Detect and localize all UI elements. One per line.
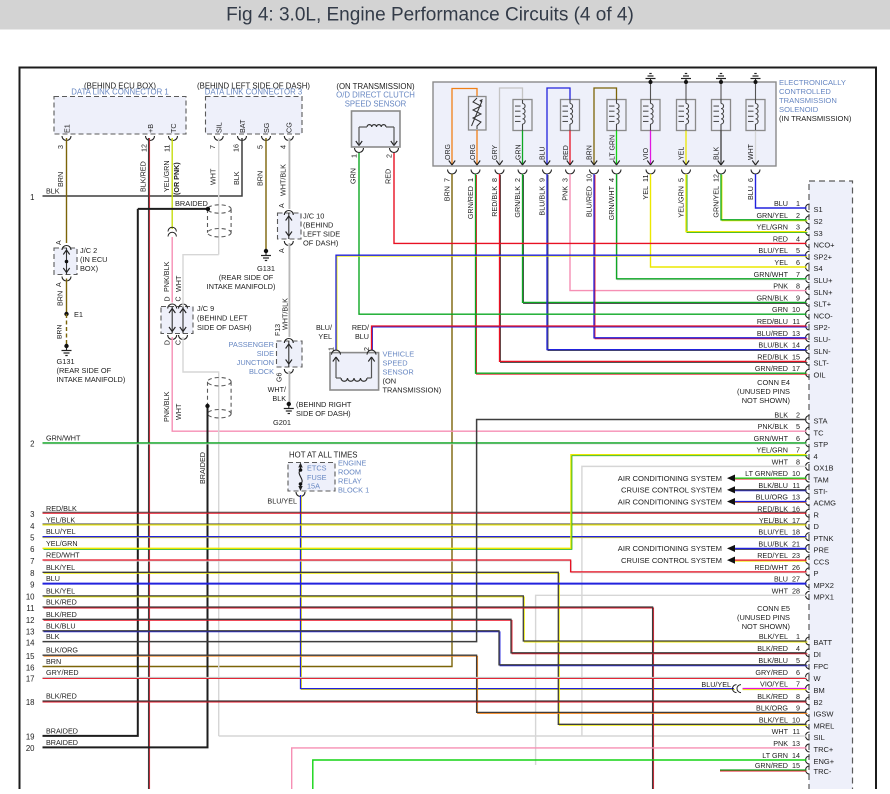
wire WHT OX1B drop xyxy=(582,466,807,736)
connector box DATA LINK CONNECTOR 1 xyxy=(54,97,186,135)
wire GRN O/D pin1 to NCO- xyxy=(349,153,807,314)
wire 13 BLK/BLU to FPC xyxy=(26,621,808,666)
svg-text:(UNUSED PINS: (UNUSED PINS xyxy=(737,387,790,396)
svg-text:(ON: (ON xyxy=(383,377,397,386)
ECM E4 pin S2 xyxy=(756,211,822,226)
label J/C 2 xyxy=(80,246,108,273)
svg-text:TRANSMISSION): TRANSMISSION) xyxy=(383,386,442,395)
ECM E5 pin BM lower xyxy=(760,680,825,695)
svg-text:NOT SHOWN): NOT SHOWN) xyxy=(742,622,790,631)
svg-text:SP2-: SP2- xyxy=(814,323,831,332)
fuse bottom pin xyxy=(296,492,305,497)
svg-text:CONN E4: CONN E4 xyxy=(757,378,790,387)
svg-text:BLK: BLK xyxy=(232,171,241,185)
svg-text:BLK/RED: BLK/RED xyxy=(46,692,77,701)
wire RED O/D pin2 to NCO+ xyxy=(384,153,807,243)
electronically controlled transmission solenoid box xyxy=(433,82,776,166)
svg-text:G201: G201 xyxy=(273,418,291,427)
svg-text:BLK/YEL: BLK/YEL xyxy=(759,715,788,724)
svg-text:10: 10 xyxy=(585,174,594,182)
shield cylinder B xyxy=(208,378,232,418)
svg-text:OIL: OIL xyxy=(814,370,826,379)
wire YEL/GRN DLC1 TC xyxy=(162,138,181,229)
svg-text:RED: RED xyxy=(773,234,788,243)
solenoid SLU coil xyxy=(641,82,660,165)
DLC3 pin BAT xyxy=(232,119,248,152)
svg-text:(BEHIND LEFT: (BEHIND LEFT xyxy=(197,314,248,323)
svg-text:STP: STP xyxy=(814,440,829,449)
svg-text:WHT: WHT xyxy=(174,275,183,292)
wire 12 BLK/RED to DI xyxy=(26,610,808,654)
ECM E5 pin P xyxy=(754,563,818,578)
wire BLK/BLU to STI- + cruise control system xyxy=(621,486,806,495)
ECM E4 pin SP2- xyxy=(757,317,831,332)
solenoid S2 coil xyxy=(492,88,532,165)
wire 8 BLK/YEL to MREL xyxy=(30,563,807,726)
svg-text:RELAY: RELAY xyxy=(338,477,362,486)
svg-text:3: 3 xyxy=(561,178,570,182)
ECM E5 pin 4 xyxy=(756,446,817,461)
label O/D DIRECT CLUTCH SPEED SENSOR xyxy=(336,91,415,109)
svg-text:(REAR SIDE OF: (REAR SIDE OF xyxy=(57,366,112,375)
label J/C 9 xyxy=(197,304,252,332)
wire braided 19 xyxy=(26,209,138,742)
svg-text:9: 9 xyxy=(30,580,34,589)
ECM E4 pin NCO- xyxy=(772,305,833,320)
ground G131 (SG) xyxy=(261,249,271,261)
svg-text:B2: B2 xyxy=(814,698,823,707)
svg-text:OF DASH): OF DASH) xyxy=(303,239,338,248)
svg-text:SIDE: SIDE xyxy=(257,349,274,358)
svg-text:12: 12 xyxy=(712,174,721,182)
svg-text:RED/BLK: RED/BLK xyxy=(46,504,77,513)
solenoid SLN coil xyxy=(677,82,696,165)
DLC3 pin SIL xyxy=(208,122,224,149)
svg-text:C: C xyxy=(176,296,183,301)
svg-text:YEL/GRN: YEL/GRN xyxy=(756,223,788,232)
svg-text:E1: E1 xyxy=(74,310,83,319)
svg-text:2: 2 xyxy=(796,211,800,220)
junction J/C 10 xyxy=(278,203,302,253)
svg-text:GRN: GRN xyxy=(772,305,788,314)
wire 16 BRN label xyxy=(26,657,61,672)
svg-text:18: 18 xyxy=(792,528,800,537)
svg-text:(BEHIND RIGHT: (BEHIND RIGHT xyxy=(296,400,352,409)
svg-text:RED/WHT: RED/WHT xyxy=(754,563,788,572)
wire 3 RED/BLK to R xyxy=(30,504,806,519)
svg-text:(BEHIND: (BEHIND xyxy=(303,221,333,230)
svg-text:C: C xyxy=(176,340,183,345)
svg-text:D: D xyxy=(165,296,172,301)
svg-text:BRN: BRN xyxy=(56,172,65,187)
svg-text:BLK/RED: BLK/RED xyxy=(757,692,788,701)
svg-text:BLU/BLK: BLU/BLK xyxy=(538,186,547,216)
svg-text:D: D xyxy=(814,522,820,531)
svg-text:A: A xyxy=(279,203,286,208)
ECM E4 pin NCO+ xyxy=(773,234,835,249)
svg-text:J/C 9: J/C 9 xyxy=(197,304,214,313)
ECM E5 pin DI lower xyxy=(757,644,821,659)
wire 14 BLK to STA xyxy=(26,420,807,648)
solenoid box pin 8 xyxy=(490,170,504,217)
svg-text:BRN: BRN xyxy=(443,186,452,201)
ECM E5 pin TC xyxy=(758,422,824,437)
svg-text:YEL: YEL xyxy=(679,147,686,160)
svg-text:BLK/RED: BLK/RED xyxy=(46,598,77,607)
svg-text:DATA LINK CONNECTOR 1: DATA LINK CONNECTOR 1 xyxy=(71,88,168,97)
svg-text:11: 11 xyxy=(163,145,172,152)
wire PNK/BLK to J/C9 xyxy=(162,237,172,303)
wire PNK pin3 to SLN+ xyxy=(570,174,807,291)
svg-text:LT GRN/RED: LT GRN/RED xyxy=(745,469,788,478)
svg-text:J/C 10: J/C 10 xyxy=(303,212,324,221)
ECM E4 pin SLU- xyxy=(757,329,831,344)
svg-text:7: 7 xyxy=(443,178,452,182)
svg-text:2: 2 xyxy=(513,178,522,182)
solenoid box pin 11 xyxy=(641,170,655,200)
svg-text:3: 3 xyxy=(796,223,800,232)
label BLU/YEL (VSS) xyxy=(316,323,332,341)
ECM E5 pin TRC+ lower xyxy=(773,739,834,754)
svg-text:8: 8 xyxy=(490,178,499,182)
svg-text:6: 6 xyxy=(746,178,755,182)
inline connector on TC wire xyxy=(168,227,176,236)
svg-text:YEL: YEL xyxy=(318,332,332,341)
svg-text:A: A xyxy=(56,240,63,245)
svg-text:BLK/YEL: BLK/YEL xyxy=(46,563,75,572)
ground solenoid NCO xyxy=(751,74,761,85)
svg-text:10: 10 xyxy=(792,715,800,724)
label HOT AT ALL TIMES xyxy=(289,451,357,460)
svg-text:RED: RED xyxy=(384,169,393,184)
wire LT GRN/RED to TAM + air conditioning system xyxy=(618,474,807,483)
svg-text:BLK/RED: BLK/RED xyxy=(757,644,788,653)
svg-text:BLK/BLU: BLK/BLU xyxy=(758,481,788,490)
svg-text:+B: +B xyxy=(146,124,155,133)
wire 10 BLK/YEL to BATT xyxy=(26,586,808,642)
wire 15 BLK/ORG to IGSW xyxy=(26,646,808,714)
svg-text:BLU/ORG: BLU/ORG xyxy=(756,493,789,502)
svg-text:FUSE: FUSE xyxy=(307,473,327,482)
svg-text:BATT: BATT xyxy=(814,638,833,647)
svg-text:BLU/YEL: BLU/YEL xyxy=(701,680,731,689)
wire BRN DLC3 SG to ground xyxy=(256,138,267,250)
wire braided 20 xyxy=(26,404,210,753)
svg-text:19: 19 xyxy=(26,733,35,742)
label ORG 2 xyxy=(470,144,477,160)
wire BRN J/C2 to E1 node xyxy=(56,279,67,314)
ground solenoid SLU xyxy=(646,74,656,85)
ground solenoid SLN xyxy=(681,74,691,85)
svg-text:P: P xyxy=(814,569,819,578)
svg-text:RED/BLU: RED/BLU xyxy=(757,317,788,326)
O/D sensor pin 1 xyxy=(350,141,364,158)
svg-text:BLK: BLK xyxy=(714,146,721,160)
VSS pin 2 xyxy=(362,347,376,362)
svg-text:4: 4 xyxy=(814,452,818,461)
svg-text:MREL: MREL xyxy=(814,722,835,731)
svg-text:BLU: BLU xyxy=(774,199,788,208)
ECM E4 pin S4 xyxy=(774,258,822,273)
svg-text:BRAIDED: BRAIDED xyxy=(175,199,208,208)
svg-text:7: 7 xyxy=(796,446,800,455)
wire BLU pin6 to S1 xyxy=(756,174,807,208)
ECM E5 pin MPX2 xyxy=(774,575,834,590)
ground G201 xyxy=(284,402,294,414)
svg-text:IGSW: IGSW xyxy=(814,710,835,719)
svg-text:10: 10 xyxy=(792,469,800,478)
svg-text:YEL/GRN: YEL/GRN xyxy=(756,446,788,455)
svg-text:E1: E1 xyxy=(63,124,72,133)
svg-text:MPX1: MPX1 xyxy=(814,593,834,602)
svg-text:ORG: ORG xyxy=(445,144,452,160)
svg-text:SLU+: SLU+ xyxy=(814,276,834,285)
svg-text:YEL/GRN: YEL/GRN xyxy=(46,539,78,548)
wire GRN/RED pin1 to OIL xyxy=(476,174,808,374)
wire WHT/BLK PSJB to G201 xyxy=(289,371,290,403)
svg-text:13: 13 xyxy=(792,739,800,748)
svg-text:S3: S3 xyxy=(814,229,823,238)
svg-text:J/C 2: J/C 2 xyxy=(80,246,97,255)
svg-text:8: 8 xyxy=(796,282,800,291)
svg-text:OX1B: OX1B xyxy=(814,464,834,473)
wire YEL/GRN pin5 to S3 xyxy=(686,174,808,233)
svg-text:RED/BLK: RED/BLK xyxy=(757,352,788,361)
label G131 rear side of intake manifold (E1) xyxy=(57,357,126,384)
svg-text:4: 4 xyxy=(279,145,288,149)
svg-text:YEL/BLK: YEL/BLK xyxy=(46,515,75,524)
ECM E5 pin SIL lower xyxy=(772,727,825,742)
svg-text:13: 13 xyxy=(792,329,800,338)
svg-text:16: 16 xyxy=(26,663,35,672)
svg-text:BLU/RED: BLU/RED xyxy=(585,186,594,217)
svg-text:4: 4 xyxy=(796,234,800,243)
svg-text:GRN/WHT: GRN/WHT xyxy=(754,270,789,279)
label (ON TRANSMISSION) xyxy=(336,82,415,91)
svg-text:2: 2 xyxy=(385,154,394,158)
svg-text:BAT: BAT xyxy=(238,119,247,133)
svg-text:LT GRN: LT GRN xyxy=(610,135,617,160)
svg-text:3: 3 xyxy=(56,145,65,149)
svg-text:18: 18 xyxy=(26,698,35,707)
svg-text:RED/BLK: RED/BLK xyxy=(490,186,499,217)
svg-text:BLK/BLU: BLK/BLU xyxy=(758,656,788,665)
ECM E5 pin STA xyxy=(774,411,827,426)
svg-text:GRN: GRN xyxy=(516,144,523,160)
svg-text:SPEED: SPEED xyxy=(383,359,408,368)
svg-text:27: 27 xyxy=(792,575,800,584)
ECM E5 pin MREL lower xyxy=(759,715,835,730)
svg-text:(UNUSED PINS: (UNUSED PINS xyxy=(737,613,790,622)
svg-text:1: 1 xyxy=(350,154,359,158)
O/D sensor coil xyxy=(359,125,394,144)
svg-text:BLU/YEL: BLU/YEL xyxy=(46,527,76,536)
label BRAIDED (top) xyxy=(175,199,208,208)
svg-text:CONN E5: CONN E5 xyxy=(757,604,790,613)
svg-text:5: 5 xyxy=(796,422,800,431)
svg-text:CRUISE CONTROL SYSTEM: CRUISE CONTROL SYSTEM xyxy=(621,556,722,565)
svg-text:10: 10 xyxy=(26,593,35,602)
wire 4 YEL/BLK to D xyxy=(30,515,806,530)
label CONN E4 xyxy=(737,378,790,405)
svg-text:PTNK: PTNK xyxy=(814,534,834,543)
svg-text:SPEED SENSOR: SPEED SENSOR xyxy=(345,100,407,109)
svg-text:28: 28 xyxy=(792,586,800,595)
svg-text:PNK: PNK xyxy=(773,739,788,748)
solenoid box pin 10 xyxy=(585,170,599,218)
svg-text:Fig 4: 3.0L, Engine Performanc: Fig 4: 3.0L, Engine Performance Circuits… xyxy=(226,5,634,26)
label CONN E5 xyxy=(737,604,790,631)
svg-text:PASSENGER: PASSENGER xyxy=(229,340,274,349)
svg-text:2: 2 xyxy=(796,411,800,420)
label RED/BLU (VSS) xyxy=(352,323,369,341)
wire WHT MPX1 drop xyxy=(536,595,807,765)
ECM E5 pin TAM xyxy=(745,469,829,484)
svg-text:BLK/ORG: BLK/ORG xyxy=(756,703,788,712)
ECM E5 pin PTNK xyxy=(758,528,833,543)
svg-text:TRC-: TRC- xyxy=(814,767,832,776)
shield cylinder A xyxy=(208,205,232,237)
ECM E4 pin S3 xyxy=(756,223,822,238)
svg-text:BRAIDED: BRAIDED xyxy=(46,726,78,735)
svg-text:11: 11 xyxy=(26,604,34,613)
svg-text:WHT/BLK: WHT/BLK xyxy=(279,164,288,196)
svg-text:TC: TC xyxy=(814,428,825,437)
svg-text:9: 9 xyxy=(796,293,800,302)
wire braided shield horizontal xyxy=(138,207,210,211)
svg-text:21: 21 xyxy=(792,539,800,548)
wire WHT/BLK DLC3 CG to J/C10 xyxy=(279,138,290,209)
solenoid S4 coil xyxy=(587,88,627,165)
label WHT/BLK (G201) xyxy=(268,385,287,403)
svg-text:NCO+: NCO+ xyxy=(814,241,836,250)
label DATA LINK CONNECTOR 1 xyxy=(71,88,168,97)
svg-text:WHT: WHT xyxy=(174,403,183,420)
svg-text:BLU/RED: BLU/RED xyxy=(757,329,788,338)
svg-text:BLK: BLK xyxy=(774,411,788,420)
svg-text:ENG+: ENG+ xyxy=(814,757,835,766)
fuse ETCS 15A xyxy=(288,463,335,492)
label DATA LINK CONNECTOR 3 xyxy=(205,88,302,97)
ECM E4 pin SLT- xyxy=(757,352,829,367)
svg-text:1: 1 xyxy=(466,178,475,182)
svg-text:SIL: SIL xyxy=(215,122,224,133)
svg-text:ENGINE: ENGINE xyxy=(338,459,366,468)
svg-text:GRN/RED: GRN/RED xyxy=(755,761,788,770)
svg-text:PNK/BLK: PNK/BLK xyxy=(162,261,171,292)
label ELECTRONICALLY CONTROLLED TRANSMISSION SOLENOID xyxy=(779,78,852,123)
svg-text:(OR PNK): (OR PNK) xyxy=(172,162,181,195)
svg-text:DATA LINK CONNECTOR 3: DATA LINK CONNECTOR 3 xyxy=(205,88,302,97)
svg-text:BRN: BRN xyxy=(46,657,61,666)
wire 2 GRN/WHT to STP xyxy=(30,433,806,448)
svg-text:3: 3 xyxy=(30,510,34,519)
solenoid box pin 12 xyxy=(712,170,726,218)
svg-text:SIL: SIL xyxy=(814,733,825,742)
wire WHT DLC3 SIL shielded segment xyxy=(209,138,219,255)
label (BEHIND ECU BOX) xyxy=(84,82,156,91)
svg-text:BLK/ORG: BLK/ORG xyxy=(46,646,78,655)
svg-text:BLU/YEL: BLU/YEL xyxy=(267,497,297,506)
svg-text:VIO/YEL: VIO/YEL xyxy=(760,680,788,689)
wire BLU/ORG to ACMG + air conditioning system xyxy=(618,497,807,506)
svg-text:GRN/RED: GRN/RED xyxy=(466,186,475,219)
ECM E5 pin W lower xyxy=(755,668,821,683)
svg-text:BRN: BRN xyxy=(256,171,265,186)
wire BRN DLC1 E1 to J/C2 xyxy=(56,138,67,243)
svg-text:15: 15 xyxy=(792,761,800,770)
svg-text:S2: S2 xyxy=(814,217,823,226)
DLC1 pin TC xyxy=(163,123,179,152)
svg-text:BRN: BRN xyxy=(57,325,64,339)
label ORG 1 xyxy=(445,144,452,160)
wire 11 BLK/RED down xyxy=(26,598,653,791)
svg-text:1: 1 xyxy=(796,199,800,208)
svg-text:16: 16 xyxy=(232,144,241,152)
solenoid box pin 4 xyxy=(607,170,621,221)
svg-text:NOT SHOWN): NOT SHOWN) xyxy=(742,396,790,405)
svg-text:WHT: WHT xyxy=(748,143,755,160)
VSS pin 1 xyxy=(327,347,341,362)
svg-text:ROOM: ROOM xyxy=(338,468,361,477)
svg-text:RED/YEL: RED/YEL xyxy=(757,551,788,560)
svg-text:BRAIDED: BRAIDED xyxy=(198,452,207,484)
svg-text:8: 8 xyxy=(30,569,34,578)
wire LT GRN to ENG+ xyxy=(313,760,807,789)
svg-text:6: 6 xyxy=(796,258,800,267)
svg-text:BLK/YEL: BLK/YEL xyxy=(46,586,75,595)
svg-text:GRN/WHT: GRN/WHT xyxy=(46,433,81,442)
ECM E5 pin CCS xyxy=(757,551,829,566)
wire WHT to SIL pin xyxy=(219,735,807,737)
svg-text:8: 8 xyxy=(796,457,800,466)
svg-text:BRN: BRN xyxy=(56,291,65,306)
svg-text:7: 7 xyxy=(796,680,800,689)
svg-text:11: 11 xyxy=(793,481,800,490)
svg-text:SLT-: SLT- xyxy=(814,359,830,368)
svg-text:SLT+: SLT+ xyxy=(814,300,832,309)
ECM E4 pin SLN- xyxy=(758,341,831,356)
svg-text:TRANSMISSION: TRANSMISSION xyxy=(779,96,837,105)
svg-text:YEL/GRN: YEL/GRN xyxy=(162,160,171,192)
svg-text:23: 23 xyxy=(792,551,800,560)
label BLU/YEL (fuse) xyxy=(267,497,297,506)
svg-text:A: A xyxy=(56,282,63,287)
O/D direct clutch speed sensor box xyxy=(352,111,401,147)
svg-text:WHT/: WHT/ xyxy=(268,385,286,394)
svg-text:BLK/YEL: BLK/YEL xyxy=(759,632,788,641)
ECM E4 pin SLT+ xyxy=(756,293,831,308)
svg-text:BLU/BLK: BLU/BLK xyxy=(758,539,788,548)
wire 1 BLK to DLC3 BAT xyxy=(30,138,242,202)
ECM E4 pin S1 xyxy=(774,199,823,214)
svg-text:ELECTRONICALLY: ELECTRONICALLY xyxy=(779,78,846,87)
svg-text:SENSOR: SENSOR xyxy=(383,368,414,377)
svg-text:RED/: RED/ xyxy=(352,323,369,332)
svg-text:7: 7 xyxy=(30,557,34,566)
svg-text:RED: RED xyxy=(563,145,570,160)
svg-text:INTAKE MANIFOLD): INTAKE MANIFOLD) xyxy=(57,375,126,384)
svg-text:YEL/GRN: YEL/GRN xyxy=(677,186,686,218)
svg-text:CRUISE CONTROL SYSTEM: CRUISE CONTROL SYSTEM xyxy=(621,486,722,495)
ground solenoid SLT xyxy=(716,74,726,85)
svg-text:VEHICLE: VEHICLE xyxy=(383,350,415,359)
DLC1 pin E1 xyxy=(56,124,72,149)
svg-text:BLU/YEL: BLU/YEL xyxy=(758,528,788,537)
solenoid box pin 3 xyxy=(561,170,575,201)
svg-text:ETCS: ETCS xyxy=(307,464,327,473)
wire GRN/WHT pin4 to SLU+ xyxy=(617,174,808,280)
